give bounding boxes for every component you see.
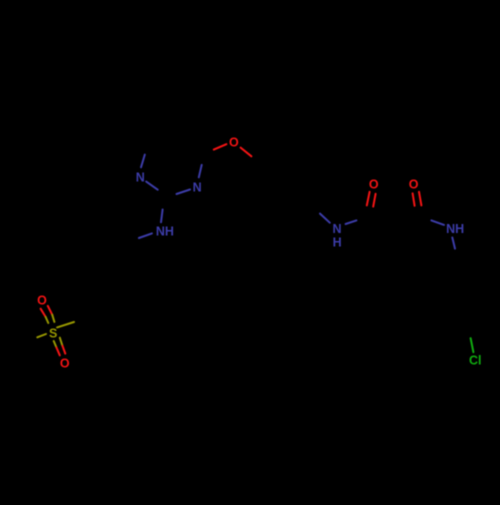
double bond S=O bottom line b yellow part	[60, 338, 63, 346]
svg-text:N: N	[332, 222, 341, 236]
double bond C=O carbonyl 2 line b	[419, 192, 421, 206]
bond N3-C4 half	[199, 165, 202, 177]
svg-text:O: O	[409, 178, 419, 192]
bond N3-C2 half	[177, 190, 191, 195]
svg-text:S: S	[49, 327, 57, 341]
svg-text:NH: NH	[446, 222, 464, 236]
svg-text:H: H	[333, 235, 342, 249]
bond N1-C2 half	[146, 182, 158, 190]
svg-text:Cl: Cl	[469, 354, 482, 368]
svg-text:O: O	[37, 294, 47, 308]
svg-text:O: O	[60, 357, 70, 371]
bond S-CH3 half	[37, 334, 46, 337]
double bond C=O carbonyl 2 line a	[413, 193, 415, 205]
bond S-CH2 half	[57, 322, 74, 327]
double bond S=O top line a red part	[41, 309, 46, 317]
bond N-C(=O) half	[346, 220, 357, 224]
double bond C=O carbonyl 1 line a	[367, 192, 370, 206]
bond C4-O half	[214, 144, 227, 149]
svg-text:NH: NH	[156, 224, 174, 238]
svg-text:O: O	[229, 136, 239, 150]
double bond S=O bottom line a red part	[57, 348, 60, 356]
bond Caryl-N half	[320, 214, 330, 223]
bond O-Caryl half	[241, 148, 252, 157]
bond C(=O)-NH half	[431, 220, 444, 225]
svg-text:O: O	[369, 178, 379, 192]
double bond S=O bottom line a yellow part	[54, 341, 57, 348]
double bond S=O top line b red part	[48, 306, 52, 315]
bond Caryl-Cl half	[471, 338, 474, 352]
bond NH-CH2 half	[139, 233, 152, 238]
double bond C=O carbonyl 1 line b	[373, 194, 375, 207]
double bond S=O top line a yellow part	[46, 317, 49, 323]
bond NH-Caryl half	[452, 238, 455, 249]
bond C2-NH half	[161, 210, 163, 223]
double bond S=O bottom line b red part	[63, 346, 66, 354]
svg-text:N: N	[136, 170, 145, 184]
double bond S=O top line b yellow part	[52, 315, 54, 322]
bond N1-C6 half	[141, 155, 145, 168]
svg-text:N: N	[193, 181, 202, 195]
